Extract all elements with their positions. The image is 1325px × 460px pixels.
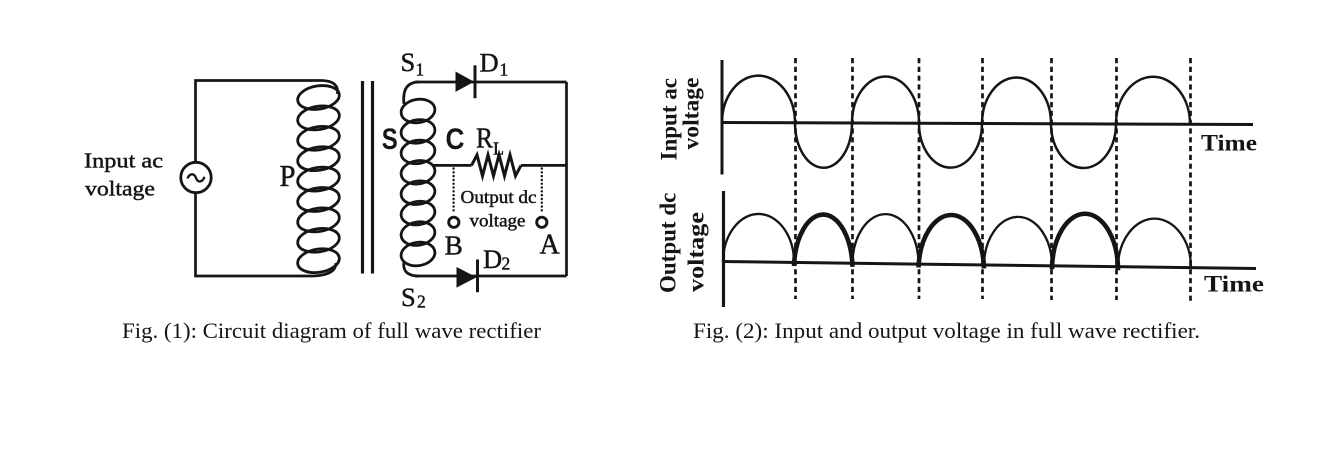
svg-text:voltage: voltage xyxy=(470,211,526,231)
svg-text:C: C xyxy=(446,123,465,156)
svg-text:voltage: voltage xyxy=(679,78,704,150)
svg-text:S: S xyxy=(401,47,416,77)
svg-text:D: D xyxy=(480,48,499,78)
resistor RL xyxy=(472,155,522,176)
inductor S (secondary coil) xyxy=(399,82,436,276)
transformer core xyxy=(363,81,373,274)
output dc waveform hump 3 (thin) xyxy=(853,214,919,264)
output dc waveform hump 6 (thick) xyxy=(1052,214,1118,270)
node B terminal xyxy=(449,217,459,227)
svg-text:Time: Time xyxy=(1201,131,1257,156)
svg-text:A: A xyxy=(540,230,561,261)
ac source xyxy=(181,162,211,192)
wire: secondary top rail xyxy=(415,81,567,84)
wire: secondary bottom rail xyxy=(415,275,567,278)
svg-text:1: 1 xyxy=(416,60,425,80)
svg-text:2: 2 xyxy=(417,292,426,312)
svg-text:voltage: voltage xyxy=(85,177,155,201)
svg-text:Fig. (1): Circuit diagram of f: Fig. (1): Circuit diagram of full wave r… xyxy=(122,318,542,343)
diode D1 xyxy=(456,65,475,98)
svg-text:P: P xyxy=(280,159,296,193)
svg-text:D: D xyxy=(483,244,502,274)
dotted lead A xyxy=(541,169,543,214)
output dc waveform hump 2 (thick) xyxy=(794,215,853,267)
svg-text:2: 2 xyxy=(502,254,511,274)
output dc waveform hump 5 (thin) xyxy=(984,217,1052,266)
diode D2 xyxy=(457,260,478,293)
svg-text:L: L xyxy=(493,139,504,159)
label: Input ac voltage (rotated) xyxy=(657,78,704,161)
svg-text:Output dc: Output dc xyxy=(656,193,681,293)
axis: input plot time axis xyxy=(721,123,1253,125)
label: Input ac voltage (source) xyxy=(84,149,163,201)
dashed timing lines xyxy=(796,58,1191,301)
svg-text:voltage: voltage xyxy=(684,212,709,292)
dotted lead B xyxy=(452,169,454,214)
input ac waveform xyxy=(722,76,1190,168)
svg-text:Time: Time xyxy=(1204,272,1264,297)
wire: primary loop left/top/bottom xyxy=(196,81,323,277)
wire: center tap xyxy=(433,164,567,167)
label: Output dc voltage (rotated) xyxy=(656,193,709,293)
svg-text:S: S xyxy=(382,123,398,156)
axis: input plot y-axis xyxy=(721,60,724,175)
node A terminal xyxy=(537,217,547,227)
svg-text:Fig. (2): Input and output vol: Fig. (2): Input and output voltage in fu… xyxy=(693,318,1200,343)
output dc waveform hump 4 (thick) xyxy=(919,215,985,268)
axis: output plot y-axis xyxy=(722,191,725,307)
svg-text:B: B xyxy=(445,230,463,261)
svg-text:S: S xyxy=(401,282,416,312)
svg-text:Output dc: Output dc xyxy=(461,187,537,207)
svg-text:Input ac: Input ac xyxy=(84,149,163,173)
wire: right rail xyxy=(565,82,568,276)
output dc waveform hump 1 (thin) xyxy=(723,214,794,263)
svg-text:1: 1 xyxy=(500,60,509,80)
output dc waveform hump 7 (thin) xyxy=(1118,219,1191,268)
axis: output plot time axis xyxy=(722,262,1256,269)
svg-text:R: R xyxy=(476,123,494,155)
label S1 xyxy=(382,47,561,312)
inductor P (primary coil) xyxy=(296,81,341,277)
